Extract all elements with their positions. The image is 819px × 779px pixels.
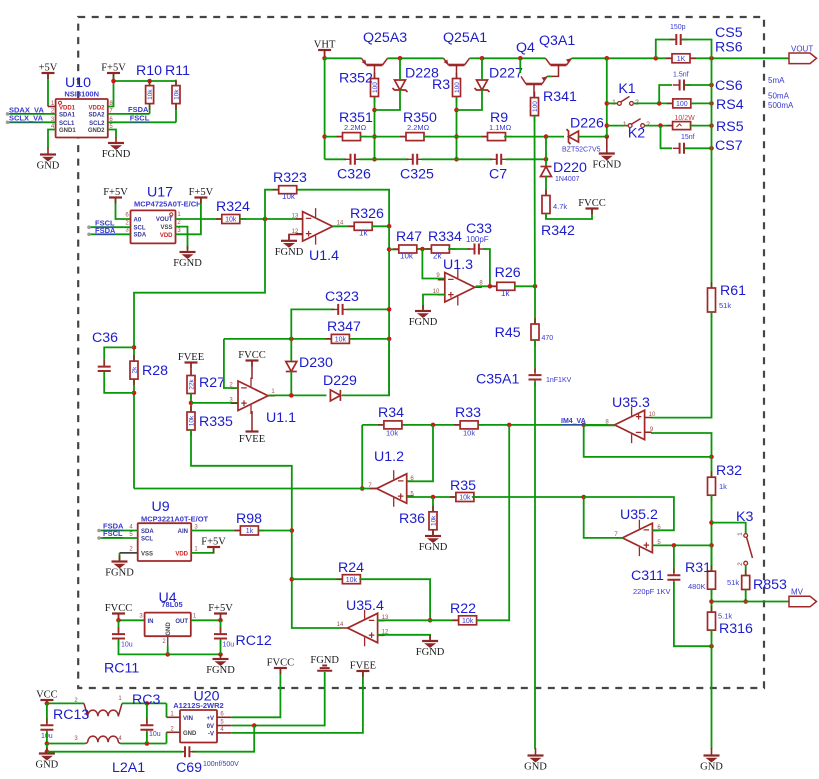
wire RC12 to FGND bbox=[220, 640, 222, 654]
wire bottom rail to RC3 bbox=[121, 743, 167, 745]
port MV bbox=[789, 588, 817, 607]
wire R26 to main column bbox=[514, 285, 535, 287]
svg-text:−: − bbox=[305, 213, 311, 225]
wire RS4 right bbox=[691, 102, 712, 104]
svg-text:GND: GND bbox=[166, 622, 172, 636]
svg-text:−: − bbox=[643, 525, 649, 537]
DAC U17 bbox=[131, 210, 176, 243]
svg-text:VDD: VDD bbox=[160, 233, 173, 239]
svg-text:C36: C36 bbox=[92, 330, 118, 346]
svg-text:F+5V: F+5V bbox=[189, 187, 214, 198]
wire rail segment 4 bbox=[572, 57, 673, 59]
svg-text:IM4_VA: IM4_VA bbox=[561, 418, 586, 425]
wire R347 right bbox=[350, 338, 389, 340]
svg-text:F+5V: F+5V bbox=[201, 537, 226, 548]
junction K1 bbox=[605, 101, 610, 106]
wire D220 column bbox=[545, 137, 547, 166]
wire right column top bbox=[711, 58, 713, 288]
svg-text:R47: R47 bbox=[396, 229, 422, 245]
svg-text:+: + bbox=[643, 540, 649, 552]
wire R350 to R9 bbox=[423, 136, 489, 138]
wire U4 GND pin bbox=[167, 636, 169, 647]
wire U35.4 pin13 to R22 bbox=[378, 619, 459, 621]
junction U1.1 out bbox=[289, 393, 294, 398]
wire R34 left vertical bbox=[361, 425, 363, 489]
svg-text:AIN: AIN bbox=[178, 529, 188, 535]
capacitor CS5 bbox=[670, 34, 688, 45]
svg-text:FVEE: FVEE bbox=[239, 434, 265, 445]
resistor R326 bbox=[348, 222, 378, 230]
svg-text:F+5V: F+5V bbox=[101, 63, 126, 74]
svg-text:Q25A3: Q25A3 bbox=[363, 30, 407, 46]
svg-text:5.1k: 5.1k bbox=[718, 612, 732, 621]
wire C311 branch bbox=[673, 545, 675, 573]
wire GND2 to FGND bbox=[108, 130, 116, 139]
svg-text:2: 2 bbox=[125, 221, 129, 227]
C36 branch bottom bbox=[104, 372, 134, 393]
svg-text:FSCL: FSCL bbox=[103, 529, 123, 538]
wire CS6 right bbox=[685, 84, 712, 86]
net SCLX_VA bbox=[6, 114, 56, 124]
power F+5V bbox=[189, 187, 214, 204]
svg-text:A1212S-2WR2: A1212S-2WR2 bbox=[173, 701, 223, 710]
wire Q4 emitter to Q3A1 base bbox=[547, 75, 552, 77]
svg-text:15nf: 15nf bbox=[681, 134, 695, 141]
svg-text:R351: R351 bbox=[339, 110, 373, 126]
wire R36 bbox=[432, 497, 434, 511]
wire R47 row bbox=[389, 248, 398, 250]
junction R352 R351 row bbox=[372, 134, 377, 139]
wire R352 to R351 row bbox=[374, 97, 376, 159]
wire to U20 VIN bbox=[166, 703, 168, 717]
wire K1 pin2 to RS4 bbox=[634, 102, 674, 104]
wire U1.4 pin12 to FGND bbox=[289, 234, 303, 239]
wire R323 loop bbox=[265, 190, 278, 219]
svg-text:1: 1 bbox=[623, 122, 627, 129]
svg-text:FSDA: FSDA bbox=[95, 226, 116, 235]
wire R9 to D226 bbox=[504, 136, 564, 138]
power VHT bbox=[314, 40, 336, 57]
wire column to R32 bbox=[711, 457, 713, 478]
capacitor C36 bbox=[98, 360, 111, 378]
svg-text:L2A1: L2A1 bbox=[112, 760, 145, 776]
U20 GND stub bbox=[167, 731, 181, 733]
junction R24 R22 bbox=[428, 618, 433, 623]
junction cap row D220 bbox=[544, 157, 549, 162]
svg-text:R36: R36 bbox=[399, 511, 425, 527]
wire R10 leads bbox=[149, 81, 151, 114]
zener D226 bbox=[567, 129, 579, 144]
svg-text:Q25A1: Q25A1 bbox=[443, 30, 487, 46]
svg-text:FVCC: FVCC bbox=[267, 658, 294, 669]
svg-text:1k: 1k bbox=[501, 289, 510, 298]
sheet border (dashed) bbox=[78, 17, 764, 688]
wire D229 to vertical bbox=[342, 339, 389, 396]
svg-text:R32: R32 bbox=[716, 463, 742, 479]
junction U35.3 feedback bbox=[709, 455, 714, 460]
svg-text:13: 13 bbox=[292, 214, 299, 220]
svg-text:+: + bbox=[305, 229, 311, 241]
power F+5V (U10) bbox=[108, 74, 114, 107]
junction R35 U35.2 bbox=[581, 495, 586, 500]
svg-text:6: 6 bbox=[125, 213, 129, 219]
svg-text:VOUT: VOUT bbox=[791, 45, 813, 54]
DC-DC converter U20 bbox=[180, 710, 217, 743]
power FVEE bbox=[178, 352, 204, 369]
junction RC3 top bbox=[145, 701, 150, 706]
resistor R351 bbox=[337, 133, 367, 141]
svg-text:1k: 1k bbox=[246, 528, 254, 535]
svg-text:1: 1 bbox=[271, 389, 275, 395]
power +5V bbox=[47, 74, 49, 107]
svg-text:FGND: FGND bbox=[105, 568, 134, 579]
svg-text:GND: GND bbox=[36, 760, 59, 771]
svg-text:1: 1 bbox=[194, 547, 198, 553]
isolator U10 bbox=[56, 99, 108, 138]
wire R347 row left bbox=[224, 338, 331, 340]
wire C69 branch bbox=[192, 726, 254, 752]
svg-text:10k: 10k bbox=[174, 89, 181, 100]
svg-text:D220: D220 bbox=[553, 160, 587, 176]
svg-text:10k: 10k bbox=[225, 217, 237, 224]
power F+5V bbox=[101, 63, 126, 80]
power VCC bbox=[46, 701, 48, 703]
svg-text:GND: GND bbox=[37, 161, 60, 172]
svg-text:F+5V: F+5V bbox=[103, 187, 128, 198]
svg-text:VHT: VHT bbox=[314, 40, 336, 51]
resistor R11 bbox=[172, 80, 181, 110]
resistor R32 bbox=[708, 471, 716, 501]
svg-text:−: − bbox=[635, 427, 641, 439]
svg-text:VDD: VDD bbox=[175, 551, 188, 557]
svg-text:R22: R22 bbox=[450, 601, 476, 617]
wire R27 to node bbox=[190, 394, 192, 413]
wire U35.2 pin5 bbox=[652, 544, 711, 546]
svg-text:−: − bbox=[241, 383, 247, 395]
svg-text:U1.2: U1.2 bbox=[374, 449, 404, 465]
capacitor RC11 bbox=[112, 627, 125, 645]
capacitor C33 bbox=[468, 244, 486, 255]
svg-text:10: 10 bbox=[649, 412, 656, 418]
resistor R323 bbox=[273, 186, 303, 194]
junction U35.2 R31 bbox=[709, 543, 714, 548]
net FSDA (U17) bbox=[87, 226, 130, 236]
wire VCC rail to GND symbol bbox=[46, 744, 48, 753]
svg-text:FGND: FGND bbox=[206, 665, 235, 676]
wire rail segment 3 bbox=[470, 57, 546, 59]
svg-text:D229: D229 bbox=[323, 373, 357, 389]
resistor RS4 bbox=[667, 99, 697, 108]
wire bottom rail to L2A1 bbox=[47, 743, 86, 745]
junction RC11 top bbox=[116, 618, 121, 623]
power FVCC (U20) bbox=[267, 658, 294, 675]
capacitor C326 bbox=[344, 154, 362, 165]
current list 5mA 50mA 500mA bbox=[768, 76, 794, 110]
svg-text:3: 3 bbox=[74, 736, 78, 742]
svg-text:100: 100 bbox=[676, 101, 688, 108]
svg-text:A0: A0 bbox=[134, 218, 142, 224]
svg-text:D226: D226 bbox=[570, 116, 604, 132]
op-amp U35.2 bbox=[614, 507, 661, 556]
wire RC3 bottom bbox=[146, 732, 148, 744]
junction R24 left bbox=[290, 577, 295, 582]
svg-text:100: 100 bbox=[454, 82, 461, 93]
wire R11 leads bbox=[175, 81, 177, 122]
wire R98 right bbox=[259, 530, 292, 532]
net FSCL (U17) bbox=[87, 219, 130, 229]
svg-text:+5V: +5V bbox=[39, 63, 58, 74]
resistor R22 bbox=[453, 616, 483, 625]
op-amp U1.3 bbox=[433, 257, 484, 306]
junction R26 column bbox=[533, 284, 538, 289]
resistor R27 bbox=[187, 370, 196, 400]
U20 pin names bbox=[183, 716, 214, 738]
junction R3 D227 bbox=[454, 108, 459, 113]
wire plus input U1.1 bbox=[191, 402, 238, 404]
wire U1.2 output row bbox=[134, 488, 378, 490]
svg-text:3: 3 bbox=[139, 614, 143, 620]
inductor L2A1 bottom winding bbox=[74, 736, 122, 744]
ground FGND (U1.4) bbox=[275, 235, 304, 258]
svg-text:VDD1: VDD1 bbox=[59, 105, 76, 111]
svg-text:CS6: CS6 bbox=[715, 78, 743, 94]
wire K1 column bbox=[606, 58, 608, 136]
wire R31 column bbox=[711, 545, 713, 571]
U17 pin names bbox=[134, 217, 174, 239]
svg-text:4.7k: 4.7k bbox=[553, 202, 567, 211]
svg-text:10k: 10k bbox=[282, 192, 296, 201]
svg-text:OUT: OUT bbox=[175, 619, 188, 625]
svg-text:SDA: SDA bbox=[141, 529, 154, 535]
wire C36 branch bbox=[104, 347, 134, 366]
junction D220 top bbox=[544, 134, 549, 139]
U9 pin names bbox=[141, 529, 189, 557]
resistor R36 bbox=[429, 506, 438, 536]
junction CS6 right bbox=[709, 83, 714, 88]
capacitor C69 bbox=[178, 746, 196, 757]
diode D230 bbox=[286, 362, 297, 372]
junction CS5 left bbox=[654, 56, 659, 61]
wire K3 to R853 bbox=[745, 565, 747, 576]
wire R335 down and across bbox=[191, 430, 341, 628]
Q3A1 base stub bbox=[552, 65, 559, 76]
svg-text:10k: 10k bbox=[147, 89, 154, 100]
diode D229 bbox=[330, 390, 340, 401]
svg-text:Q3A1: Q3A1 bbox=[539, 33, 575, 49]
svg-text:1k: 1k bbox=[719, 482, 727, 491]
capacitor C311 bbox=[667, 569, 680, 587]
transistor Q25A1 bbox=[444, 58, 470, 65]
svg-text:FGND: FGND bbox=[416, 647, 445, 658]
svg-text:VSS: VSS bbox=[141, 551, 153, 557]
svg-text:10k: 10k bbox=[346, 577, 358, 584]
U10 pin1 mark bbox=[58, 101, 61, 104]
junction D228 top bbox=[398, 56, 403, 61]
capacitor C35A1 bbox=[529, 368, 542, 386]
wire C323 branch bbox=[291, 309, 334, 339]
svg-text:RS6: RS6 bbox=[715, 40, 743, 56]
resistor R10 bbox=[146, 80, 155, 110]
resistor R24 bbox=[336, 575, 366, 584]
junction Q4 collector bbox=[518, 56, 523, 61]
wire RC13 bottom bbox=[46, 732, 48, 744]
wire left rail drop VHT to rows bbox=[324, 58, 326, 159]
junction RC12 top bbox=[218, 618, 223, 623]
op-amp U35.4 bbox=[337, 598, 389, 646]
svg-text:10u: 10u bbox=[121, 642, 133, 649]
svg-text:RC13: RC13 bbox=[53, 707, 89, 723]
svg-text:SCLX_VA: SCLX_VA bbox=[9, 114, 44, 123]
svg-text:1: 1 bbox=[177, 212, 181, 218]
wire R31 to MV row bbox=[711, 589, 713, 612]
resistor R35 bbox=[450, 493, 480, 502]
junction R33 right bbox=[507, 423, 512, 428]
svg-text:FGND: FGND bbox=[409, 317, 438, 328]
U4 pin numbers bbox=[139, 614, 197, 646]
svg-text:−: − bbox=[368, 615, 374, 627]
transistor Q3A1 bbox=[546, 58, 572, 65]
power FVCC (U1.1) bbox=[251, 362, 253, 380]
op-amp U1.1 bbox=[229, 378, 296, 427]
svg-text:500mA: 500mA bbox=[768, 101, 794, 110]
junction R36 top bbox=[431, 495, 436, 500]
ground GND (VCC) bbox=[36, 748, 59, 771]
svg-text:RS5: RS5 bbox=[716, 119, 744, 135]
U20 VIN stub bbox=[167, 716, 181, 718]
junction R352 D228 bbox=[372, 108, 377, 113]
wire U35.3 output bbox=[584, 424, 616, 426]
U9 pin numbers bbox=[129, 525, 198, 553]
wire R341 stem bbox=[533, 84, 535, 99]
op-amp U1.4 bbox=[292, 208, 344, 264]
net SDAX_VA bbox=[6, 105, 56, 115]
wire CS6 branch bbox=[659, 85, 672, 103]
ground FGND (R36) bbox=[419, 530, 448, 553]
junction R34 R33 bbox=[431, 423, 436, 428]
junction cap row C325 bbox=[454, 157, 459, 162]
wire U9 AIN to R98 bbox=[191, 530, 240, 532]
wire U4 OUT to F+5V bbox=[191, 619, 221, 621]
wire CS5 branch bbox=[656, 40, 674, 59]
svg-text:10k: 10k bbox=[335, 337, 347, 344]
svg-text:+: + bbox=[397, 491, 403, 503]
svg-text:1k: 1k bbox=[359, 229, 368, 238]
resistor R3 bbox=[453, 73, 462, 103]
U20 +V stub bbox=[217, 716, 231, 718]
junction K2 bbox=[605, 123, 610, 128]
svg-text:3: 3 bbox=[125, 228, 129, 234]
wire L2A1 top to RC3 bbox=[122, 702, 167, 704]
wire R352 stem bbox=[374, 65, 376, 78]
capacitor C7 bbox=[490, 154, 508, 165]
resistor R853 bbox=[742, 570, 750, 596]
svg-text:51k: 51k bbox=[719, 301, 731, 310]
svg-text:D227: D227 bbox=[489, 66, 523, 82]
power F+5V (U17 left) bbox=[116, 199, 131, 220]
svg-text:RC12: RC12 bbox=[236, 633, 272, 649]
junction RS4 right bbox=[709, 101, 714, 106]
wire -V to FVEE bbox=[231, 672, 363, 733]
junction K column top bbox=[605, 56, 610, 61]
zener D228 bbox=[393, 80, 408, 92]
svg-text:10k: 10k bbox=[189, 415, 196, 426]
resistor R26 bbox=[491, 282, 521, 290]
svg-text:1: 1 bbox=[193, 614, 197, 620]
wire main column Q4 R341 down bbox=[534, 116, 536, 287]
svg-text:R9: R9 bbox=[490, 110, 508, 126]
svg-text:R28: R28 bbox=[142, 363, 168, 379]
RS5 squiggle bbox=[677, 124, 682, 127]
wire U1.4 out to R326 bbox=[333, 225, 355, 227]
svg-text:22k: 22k bbox=[189, 379, 196, 390]
svg-text:2: 2 bbox=[177, 220, 181, 226]
svg-text:10k: 10k bbox=[386, 429, 398, 438]
port VOUT bbox=[789, 45, 817, 64]
svg-text:GND: GND bbox=[524, 762, 547, 773]
svg-text:K3: K3 bbox=[736, 509, 753, 525]
svg-text:R10: R10 bbox=[136, 63, 162, 79]
power VCC bbox=[36, 690, 58, 707]
svg-text:D230: D230 bbox=[299, 355, 333, 371]
wire RC11 branch bbox=[118, 620, 120, 632]
ground GND (U10) bbox=[37, 148, 60, 172]
junction R98 right bbox=[290, 528, 295, 533]
svg-text:VDD2: VDD2 bbox=[88, 105, 105, 111]
wire D228 branch bbox=[399, 58, 401, 79]
svg-text:K1: K1 bbox=[618, 81, 635, 97]
svg-text:2k: 2k bbox=[132, 366, 139, 374]
svg-text:FVCC: FVCC bbox=[105, 603, 132, 614]
wire R45 to C35A1 bbox=[534, 340, 536, 373]
wire C323 right bbox=[347, 308, 389, 310]
wire U17 VSS to FGND bbox=[176, 227, 188, 250]
svg-text:FVCC: FVCC bbox=[578, 198, 605, 209]
svg-text:C35A1: C35A1 bbox=[476, 372, 519, 388]
wire main column R45 bbox=[534, 286, 536, 324]
wire D228 bottom bbox=[375, 90, 401, 110]
capacitor RC12 bbox=[214, 627, 227, 645]
wire R35 right bbox=[472, 496, 584, 498]
junction D227 top bbox=[480, 56, 485, 61]
resistor R352 bbox=[371, 73, 380, 103]
wire CS7 right bbox=[685, 147, 712, 149]
resistor R31 bbox=[708, 565, 716, 595]
svg-text:2: 2 bbox=[737, 562, 744, 566]
svg-text:1: 1 bbox=[118, 696, 122, 702]
svg-text:Q4: Q4 bbox=[516, 40, 535, 56]
wire VDD1 stub bbox=[48, 106, 56, 108]
svg-text:K2: K2 bbox=[628, 126, 645, 142]
svg-text:2: 2 bbox=[129, 547, 133, 553]
svg-text:100: 100 bbox=[372, 82, 379, 93]
svg-text:CS7: CS7 bbox=[715, 138, 743, 154]
wire capacitor row bbox=[325, 158, 346, 160]
wire CS7 branch bbox=[661, 126, 673, 149]
svg-text:10k: 10k bbox=[463, 429, 475, 438]
wire FVCC to U4 IN bbox=[119, 619, 145, 621]
svg-text:FVCC: FVCC bbox=[238, 350, 265, 361]
svg-text:FGND: FGND bbox=[310, 655, 339, 666]
svg-text:1: 1 bbox=[612, 99, 616, 106]
svg-text:0V: 0V bbox=[207, 724, 214, 730]
junction R47 R334 bbox=[420, 247, 425, 252]
svg-text:F+5V: F+5V bbox=[208, 603, 233, 614]
junction U4 GND bbox=[165, 652, 170, 657]
svg-text:IN: IN bbox=[148, 619, 154, 625]
capacitor C323 bbox=[331, 304, 349, 315]
wire R342 to FVCC bbox=[546, 210, 592, 220]
wire VCC rail to L2A1 bbox=[47, 702, 84, 704]
